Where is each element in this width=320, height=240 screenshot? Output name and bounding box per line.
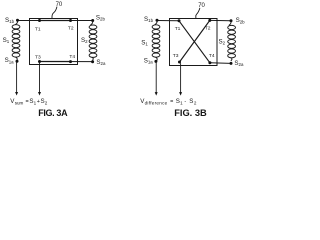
wire Vdifference probe from S1a (FIG 3B) <box>155 63 157 92</box>
terminal dot T3 (FIG 3A) <box>38 60 41 63</box>
svg-text:S2a: S2a <box>234 60 244 67</box>
arrowhead Vdifference right (FIG 3B) <box>179 92 182 96</box>
svg-text:S2b: S2b <box>96 14 106 21</box>
svg-text:S2a: S2a <box>96 59 106 66</box>
terminal dot T4 (FIG 3B) <box>208 61 211 64</box>
svg-text:S1b: S1b <box>5 17 15 24</box>
wire Vdifference probe from T3 (FIG 3B) <box>180 64 182 93</box>
wire Vsum probe from S1a (FIG 3A) <box>16 63 18 93</box>
node S1a (FIG 3B) <box>154 60 157 63</box>
wire diagonal T1-T4 (FIG 3B) <box>179 21 210 63</box>
node S1b (FIG 3A) <box>16 19 19 22</box>
arrowhead Vsum left (FIG 3A) <box>15 92 18 96</box>
arrowhead Vdifference left (FIG 3B) <box>155 92 158 96</box>
inductor S1 coil (FIG 3B) <box>152 21 160 60</box>
wire Vsum probe from T3 (FIG 3A) <box>39 63 41 92</box>
svg-text:T2: T2 <box>205 25 211 31</box>
svg-text:S1: S1 <box>3 37 10 44</box>
svg-text:Vsum=S1+S2: Vsum=S1+S2 <box>10 98 47 105</box>
box 70 (FIG 3B) <box>170 19 218 66</box>
svg-text:S2b: S2b <box>236 17 246 24</box>
box 70 (FIG 3A) <box>30 19 78 65</box>
svg-text:T1: T1 <box>175 26 181 32</box>
svg-text:S1a: S1a <box>144 58 154 65</box>
node S2a (FIG 3A) <box>91 60 94 63</box>
terminal dot T2 (FIG 3B) <box>208 19 211 22</box>
node S2b (FIG 3B) <box>230 19 233 22</box>
svg-text:T4: T4 <box>69 54 75 60</box>
svg-text:S2: S2 <box>219 39 226 46</box>
svg-text:T1: T1 <box>35 26 41 32</box>
leader line 70 (FIG 3A) <box>52 7 57 18</box>
wire S1b-T1 (FIG 3B) <box>157 20 179 22</box>
terminal dot T1 (FIG 3A) <box>38 19 41 22</box>
node S2b (FIG 3A) <box>91 19 94 22</box>
leader line 70 (FIG 3B) <box>196 8 200 18</box>
node S1a (FIG 3A) <box>16 60 19 63</box>
svg-text:S2: S2 <box>81 37 88 44</box>
svg-text:S1a: S1a <box>5 57 15 64</box>
wire T3-T4 internal (FIG 3A) <box>40 61 71 63</box>
svg-text:S1: S1 <box>141 39 148 46</box>
svg-text:FIG. 3B: FIG. 3B <box>174 108 207 118</box>
wire top S1b-S2b (FIG 3A) <box>18 20 93 22</box>
terminal dot T2 (FIG 3A) <box>69 19 72 22</box>
node S2a (FIG 3B) <box>230 62 233 65</box>
svg-text:T3: T3 <box>35 54 41 60</box>
wire T2-S2b (FIG 3B) <box>210 19 231 21</box>
node S1b (FIG 3B) <box>156 19 159 22</box>
svg-text:T2: T2 <box>68 26 74 32</box>
terminal dot T3 (FIG 3B) <box>178 61 181 64</box>
wire bottom T3-S2a (FIG 3A) <box>40 61 93 63</box>
svg-text:T3: T3 <box>173 53 179 59</box>
terminal dot T1 (FIG 3B) <box>178 19 181 22</box>
svg-text:Vdifference=S1-S2: Vdifference=S1-S2 <box>140 98 197 105</box>
wire diagonal T2-T3 (FIG 3B) <box>180 20 210 62</box>
inductor S2 coil (FIG 3B) <box>228 21 236 60</box>
inductor S1 coil (FIG 3A) <box>12 21 20 60</box>
arrowhead Vsum right (FIG 3A) <box>38 92 41 96</box>
svg-text:T4: T4 <box>209 53 215 59</box>
svg-text:FIG. 3A: FIG. 3A <box>38 108 68 118</box>
wire T4-S2a (FIG 3B) <box>210 62 231 65</box>
terminal dot T4 (FIG 3A) <box>69 60 72 63</box>
wire T1-T2 internal (FIG 3A) <box>40 20 71 22</box>
inductor S2 coil (FIG 3A) <box>89 21 97 60</box>
svg-text:S1b: S1b <box>144 16 154 23</box>
